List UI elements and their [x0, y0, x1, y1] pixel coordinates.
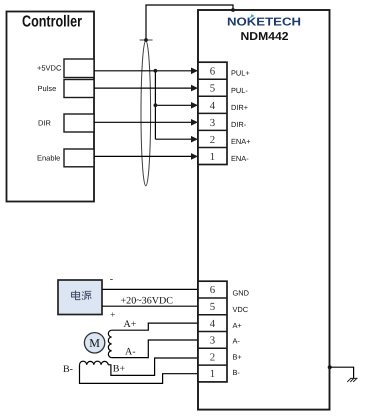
wire Pulse to PUL-	[94, 87, 192, 89]
inductor phase A winding	[108, 330, 111, 357]
svg-text:PUL-: PUL-	[231, 86, 248, 95]
svg-text:B-: B-	[63, 364, 73, 375]
svg-text:4: 4	[210, 318, 216, 330]
svg-text:-: -	[110, 274, 113, 285]
svg-text:6: 6	[210, 65, 216, 77]
wire Enable to ENA-	[94, 155, 192, 157]
wire +5VDC to PUL+	[94, 70, 192, 72]
svg-text:2: 2	[210, 351, 215, 363]
svg-text:B+: B+	[113, 364, 126, 375]
svg-text:ENA-: ENA-	[231, 154, 249, 163]
wire DIR to DIR-	[94, 121, 192, 123]
controller port box +5VDC	[64, 59, 94, 78]
node case to earth	[328, 365, 332, 369]
pin divider G4/3	[198, 331, 227, 333]
svg-text:B+: B+	[233, 353, 242, 362]
node shield to case	[231, 8, 235, 12]
node shield top	[144, 38, 148, 42]
pin divider G5/4	[198, 314, 227, 316]
svg-text:NOKETECH: NOKETECH	[227, 17, 301, 29]
arrow PUL+	[191, 68, 198, 75]
svg-text:5: 5	[210, 83, 215, 95]
arrow DIR+	[191, 102, 198, 109]
svg-text:NDM442: NDM442	[241, 31, 289, 43]
svg-text:3: 3	[210, 117, 215, 129]
wire case to earth	[330, 367, 354, 378]
svg-text:ENA+: ENA+	[231, 137, 251, 146]
pin divider 3/2	[198, 129, 227, 131]
connector J1 block	[198, 62, 227, 164]
svg-text:3: 3	[210, 335, 215, 347]
controller port box DIR	[64, 114, 94, 132]
controller port box Enable	[64, 149, 94, 167]
controller port box Pulse	[64, 80, 94, 98]
svg-text:A-: A-	[233, 337, 241, 346]
pin divider 4/3	[198, 112, 227, 114]
pin divider G2/1	[198, 364, 227, 366]
wire B-	[80, 365, 199, 384]
label 电源 glyph dian	[72, 291, 80, 300]
svg-text:B-: B-	[233, 368, 241, 377]
svg-text:1: 1	[210, 151, 215, 163]
node +5V/DIR+	[154, 103, 158, 107]
svg-text:A+: A+	[233, 321, 242, 330]
arrow PUL-	[191, 85, 198, 92]
wire supply minus to GND	[102, 288, 198, 290]
wire A+	[112, 323, 198, 330]
wire +5V common branch	[154, 71, 156, 139]
svg-text:5: 5	[210, 301, 215, 313]
wire branch to ENA+	[155, 138, 192, 140]
pin divider 2/1	[198, 147, 227, 149]
svg-text:A-: A-	[125, 346, 136, 357]
label 电源 glyph yuan	[82, 291, 91, 300]
arrow ENA+	[191, 136, 198, 143]
pin divider 6/5	[198, 78, 227, 80]
shield tick	[140, 39, 153, 41]
controller box	[7, 12, 95, 202]
inductor phase B winding	[80, 361, 109, 365]
svg-text:DIR+: DIR+	[231, 103, 248, 112]
svg-text:+20~36VDC: +20~36VDC	[121, 296, 174, 307]
node +5V/PUL+	[154, 69, 158, 73]
svg-text:+5VDC: +5VDC	[37, 64, 62, 73]
power supply box	[58, 280, 102, 315]
svg-text:DIR: DIR	[38, 118, 52, 127]
pin divider G6/5	[198, 297, 227, 299]
svg-text:4: 4	[210, 100, 216, 112]
svg-text:VDC: VDC	[233, 305, 249, 314]
wire A-	[112, 340, 198, 358]
wire supply plus to VDC	[102, 305, 198, 307]
svg-text:PUL+: PUL+	[231, 69, 250, 78]
driver box U1 NDM442	[198, 10, 330, 410]
svg-text:GND: GND	[233, 289, 249, 298]
svg-text:DIR-: DIR-	[231, 120, 247, 129]
svg-text:Pulse: Pulse	[38, 84, 57, 93]
logo accent swoosh	[250, 14, 254, 18]
svg-text:M: M	[89, 336, 100, 350]
svg-text:+: +	[110, 310, 115, 320]
arrow DIR-	[191, 119, 198, 126]
svg-text:6: 6	[210, 284, 216, 296]
cable shield ellipse	[141, 41, 151, 186]
svg-text:1: 1	[210, 368, 215, 380]
connector J2 block	[198, 281, 227, 382]
wire shield to driver case	[146, 5, 233, 40]
pin divider G3/2	[198, 347, 227, 349]
pin divider 5/4	[198, 95, 227, 97]
svg-text:Enable: Enable	[37, 153, 60, 162]
svg-text:2: 2	[210, 134, 215, 146]
wire branch to DIR+	[155, 104, 192, 106]
wire B+	[108, 358, 198, 375]
arrow ENA-	[191, 153, 198, 160]
motor M	[84, 333, 104, 353]
ground	[347, 378, 357, 382]
svg-text:A+: A+	[124, 319, 137, 330]
svg-text:Controller: Controller	[22, 14, 82, 31]
